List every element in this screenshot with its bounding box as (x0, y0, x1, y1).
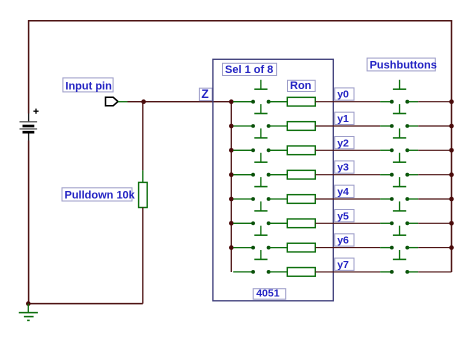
net label "y0" (335, 88, 354, 101)
svg-text:y2: y2 (337, 137, 349, 149)
wire switch S2 left lead (green) (233, 149, 253, 151)
battery V1 (20, 122, 38, 132)
resistor Ron R7 (287, 268, 315, 277)
wire net y3 to pushbutton (315, 174, 380, 176)
wire switch S7 to Ron R7 (green) (269, 271, 288, 273)
wire left rail lower (battery - to ground node) (28, 141, 30, 304)
wire pushbutton P6 left lead (green) (380, 247, 392, 249)
junction right bus row y6 (449, 245, 454, 250)
wire pushbutton P0 to right bus (418, 101, 451, 103)
wire switch S0 to Ron R0 (green) (269, 101, 288, 103)
4051 IC boundary box (213, 59, 333, 300)
junction ground node (26, 301, 31, 306)
svg-text:y5: y5 (337, 210, 349, 222)
wire pushbutton P6 right lead (green) (407, 247, 418, 249)
label "Input pin" (63, 78, 113, 93)
pin symbol (input pin) (106, 97, 119, 105)
resistor Ron R6 (287, 243, 315, 252)
analog switch S7 (channel y7) (251, 250, 270, 274)
wire pushbutton P5 left lead (green) (380, 222, 392, 224)
wire pushbutton P5 to right bus (418, 222, 451, 224)
resistor Ron R5 (287, 219, 315, 228)
wire net y1 to pushbutton (315, 125, 380, 127)
wire net y7 to pushbutton (315, 271, 380, 273)
junction bus row y4 (229, 197, 234, 202)
net label "y1" (335, 112, 354, 125)
resistor Ron R0 (287, 97, 315, 106)
wire pulldown top lead (green) (142, 170, 144, 182)
junction node Z / pulldown tap (141, 99, 146, 104)
net label "y6" (335, 234, 354, 247)
wire switch S4 to Ron R4 (green) (269, 198, 288, 200)
wire switch S7 left lead (green) (233, 271, 253, 273)
pushbutton P4 (390, 177, 409, 201)
net label "y5" (335, 210, 354, 223)
svg-text:y3: y3 (337, 162, 349, 174)
wire pushbutton P1 left lead (green) (380, 125, 392, 127)
pushbutton P7 (390, 250, 409, 274)
svg-text:4051: 4051 (256, 288, 280, 300)
wire switch S5 left lead (green) (233, 222, 253, 224)
analog switch S6 (channel y6) (251, 226, 270, 250)
wire switch S3 to Ron R3 (green) (269, 174, 288, 176)
analog switch S0 (channel y0) (251, 80, 270, 104)
junction right bus row y5 (449, 221, 454, 226)
svg-text:y7: y7 (337, 259, 349, 271)
wire pushbutton P7 right lead (green) (407, 271, 418, 273)
battery plus sign (33, 109, 38, 114)
wire net y4 to pushbutton (315, 198, 380, 200)
analog switch S4 (channel y4) (251, 177, 270, 201)
net label "y2" (335, 137, 354, 150)
junction right bus row y0 (449, 99, 454, 104)
label "Ron" (288, 80, 316, 92)
wire pin lead (green) (118, 101, 128, 103)
wire pushbutton P4 left lead (green) (380, 198, 392, 200)
junction right bus row y4 (449, 197, 454, 202)
junction bus row y3 (229, 172, 234, 177)
wire switch S6 left lead (green) (233, 247, 253, 249)
pushbutton P1 (390, 104, 409, 128)
net label "y7" (335, 258, 354, 271)
wire right bus (451, 20, 453, 272)
resistor Pulldown 10k (139, 182, 148, 207)
label "Pulldown 10k" (62, 188, 136, 202)
wire node Z down to pulldown (142, 102, 144, 171)
svg-text:Pulldown 10k: Pulldown 10k (65, 190, 136, 202)
wire pushbutton P3 right lead (green) (407, 174, 418, 176)
resistor Ron R2 (287, 146, 315, 155)
wire pushbutton P3 left lead (green) (380, 174, 392, 176)
pushbutton P6 (390, 226, 409, 250)
pushbutton P3 (390, 153, 409, 177)
wire top rail (28, 20, 452, 22)
label "Sel 1 of 8" (223, 63, 277, 76)
wire left rail upper (to battery +) (28, 20, 30, 113)
resistor Ron R3 (287, 170, 315, 179)
pushbutton P2 (390, 128, 409, 152)
wire net y6 to pushbutton (315, 247, 380, 249)
wire pushbutton P1 to right bus (418, 125, 451, 127)
svg-text:Input pin: Input pin (65, 80, 112, 92)
wire pushbutton P2 left lead (green) (380, 149, 392, 151)
wire switch S2 to Ron R2 (green) (269, 149, 288, 151)
net label "y4" (335, 185, 354, 198)
net label "y3" (335, 161, 354, 174)
wire pushbutton P2 to right bus (418, 149, 451, 151)
wire pushbutton P4 right lead (green) (407, 198, 418, 200)
svg-text:y0: y0 (337, 89, 349, 101)
ground (19, 304, 38, 321)
junction right bus row y1 (449, 124, 454, 129)
wire 4051 input bus (230, 102, 232, 272)
junction right bus row y2 (449, 148, 454, 153)
svg-text:Sel 1 of 8: Sel 1 of 8 (225, 64, 273, 76)
wire pushbutton P0 right lead (green) (407, 101, 418, 103)
wire switch S0 left lead (green) (233, 101, 253, 103)
junction bus row y6 (229, 245, 234, 250)
wire pushbutton P7 left lead (green) (380, 271, 392, 273)
analog switch S1 (channel y1) (251, 104, 270, 128)
svg-text:y6: y6 (337, 235, 349, 247)
wire pulldown bottom to ground rail (142, 208, 144, 304)
junction right bus row y3 (449, 172, 454, 177)
wire battery bottom stub (black) (28, 133, 30, 141)
analog switch S5 (channel y5) (251, 201, 270, 225)
label "Pushbuttons" (367, 58, 437, 71)
wire net y5 to pushbutton (315, 222, 380, 224)
wire bottom rail (28, 303, 143, 305)
wire pushbutton P5 right lead (green) (407, 222, 418, 224)
analog switch S3 (channel y3) (251, 153, 270, 177)
junction bus row y0 (229, 99, 234, 104)
wire pushbutton P6 to right bus (418, 247, 451, 249)
junction bus row y5 (229, 221, 234, 226)
wire input net Z (128, 101, 232, 103)
wire switch S5 to Ron R5 (green) (269, 222, 288, 224)
wire pushbutton P7 to right bus (418, 271, 451, 273)
wire switch S1 to Ron R1 (green) (269, 125, 288, 127)
junction bus row y1 (229, 124, 234, 129)
svg-text:y1: y1 (337, 113, 349, 125)
pushbutton P5 (390, 201, 409, 225)
resistor Ron R4 (287, 195, 315, 204)
wire pushbutton P1 right lead (green) (407, 125, 418, 127)
pushbutton P0 (390, 80, 409, 104)
node label "Z" (199, 87, 212, 101)
wire pushbutton P3 to right bus (418, 174, 451, 176)
wire switch S3 left lead (green) (233, 174, 253, 176)
resistor Ron R1 (287, 122, 315, 131)
wire battery top stub (black) (28, 114, 30, 122)
wire net y0 to pushbutton (315, 101, 380, 103)
svg-text:Pushbuttons: Pushbuttons (370, 59, 437, 71)
wire net y2 to pushbutton (315, 149, 380, 151)
wire switch S1 left lead (green) (233, 125, 253, 127)
wire pushbutton P4 to right bus (418, 198, 451, 200)
wire pushbutton P0 left lead (green) (380, 101, 392, 103)
svg-text:Z: Z (201, 87, 208, 101)
svg-text:Ron: Ron (290, 80, 312, 92)
wire switch S4 left lead (green) (233, 198, 253, 200)
junction bus row y2 (229, 148, 234, 153)
wire switch S6 to Ron R6 (green) (269, 247, 288, 249)
svg-text:y4: y4 (337, 186, 349, 198)
wire pushbutton P2 right lead (green) (407, 149, 418, 151)
analog switch S2 (channel y2) (251, 128, 270, 152)
label "4051" (253, 288, 286, 300)
